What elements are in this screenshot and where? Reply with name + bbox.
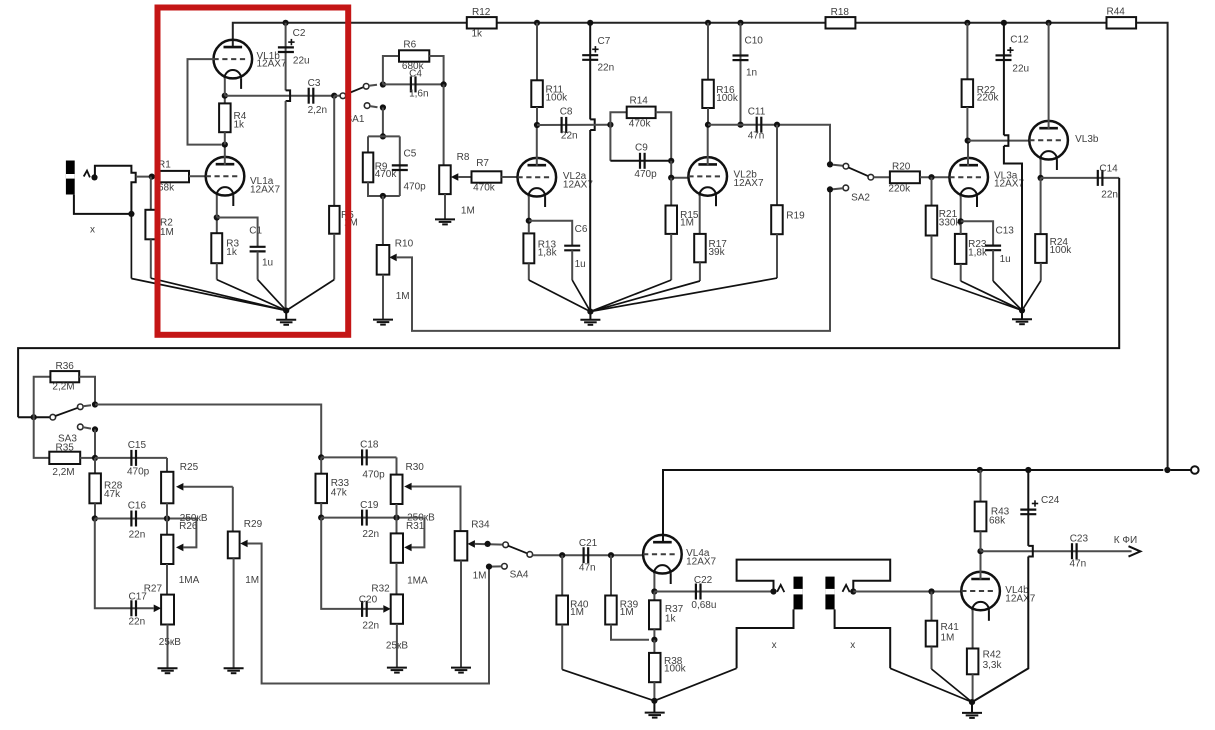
resistor R22 <box>962 23 1000 141</box>
wire R31 to R32 <box>396 563 398 595</box>
svg-text:x: x <box>772 640 777 651</box>
svg-text:C2: C2 <box>293 28 306 39</box>
node C9/R14 right <box>668 158 674 164</box>
resistor R12 <box>467 7 497 40</box>
capacitor C18 <box>360 439 385 480</box>
tube VL1a <box>206 157 281 206</box>
switch SA2 <box>827 161 874 203</box>
svg-text:1n: 1n <box>746 68 757 79</box>
jack X2 output-left <box>737 560 891 669</box>
svg-text:2,2n: 2,2n <box>308 105 327 116</box>
capacitor C24 <box>972 470 1060 702</box>
svg-text:1M: 1M <box>620 607 634 618</box>
node SA1 upper/R6 <box>380 81 386 87</box>
capacitor C6 <box>529 221 588 280</box>
capacitor C9 <box>610 143 671 181</box>
potentiometer R10 <box>377 239 414 319</box>
potentiometer R34 <box>455 520 503 668</box>
svg-text:R12: R12 <box>472 7 491 18</box>
svg-text:0,68u: 0,68u <box>691 600 716 611</box>
node SA4 lower <box>486 564 492 570</box>
svg-text:1M: 1M <box>245 575 259 586</box>
node VL1a cathode <box>214 214 220 220</box>
svg-text:R10: R10 <box>395 239 414 250</box>
wire ground diagonals VL3 <box>932 279 1041 311</box>
resistor R36 <box>34 361 95 417</box>
node R33/C19 <box>318 515 324 521</box>
resistor R6 <box>383 40 444 85</box>
capacitor C17 <box>95 519 154 628</box>
red highlight box <box>158 8 349 335</box>
resistor R2 <box>145 177 174 279</box>
capacitor C8 <box>560 107 578 142</box>
resistor R41 <box>926 592 960 670</box>
wire VL3a anode <box>967 141 969 166</box>
svg-text:470k: 470k <box>629 119 652 130</box>
node R9/C5 bottom <box>380 193 386 199</box>
capacitor C19 <box>360 500 379 540</box>
node VL2b grid/R15 <box>668 175 674 181</box>
node rail/R11 <box>534 20 540 26</box>
svg-text:12AX7: 12AX7 <box>686 557 716 568</box>
svg-text:1k: 1k <box>665 614 677 625</box>
wire anode to VL3b grid <box>968 140 1030 142</box>
wire C19 row <box>321 517 423 519</box>
wire C11 row <box>708 125 830 165</box>
svg-text:R20: R20 <box>892 162 911 173</box>
wire VL3b anode <box>1048 23 1050 129</box>
svg-text:R6: R6 <box>403 40 416 51</box>
svg-text:22u: 22u <box>293 56 310 67</box>
svg-text:1M: 1M <box>680 218 694 229</box>
svg-text:330k: 330k <box>939 218 962 229</box>
wire C4 node down to R8 <box>443 84 445 165</box>
svg-text:47n: 47n <box>1070 559 1087 570</box>
node VL1b cathode <box>222 93 228 99</box>
svg-text:x: x <box>90 225 95 236</box>
resistor R24 <box>1035 178 1072 281</box>
wire R9/C5 to R10 <box>382 196 384 245</box>
node C18 row left <box>318 454 324 460</box>
node rail/R16 <box>705 20 711 26</box>
ground VL1 stage <box>276 308 296 325</box>
node R34 wiper <box>485 541 491 547</box>
potentiometer R25 <box>161 458 233 519</box>
svg-text:C24: C24 <box>1041 495 1060 506</box>
svg-text:12AX7: 12AX7 <box>734 178 764 189</box>
potentiometer R32 <box>371 584 403 668</box>
svg-text:12AX7: 12AX7 <box>994 179 1024 190</box>
svg-text:47n: 47n <box>748 131 765 142</box>
node SA1 lower <box>380 104 386 110</box>
node VL3a anode <box>965 138 971 144</box>
capacitor C14 <box>1041 164 1120 201</box>
svg-text:R44: R44 <box>1107 7 1126 18</box>
capacitor C21 <box>579 538 598 574</box>
node VL4b anode/R43 <box>977 548 983 554</box>
svg-text:25кВ: 25кВ <box>386 641 408 652</box>
svg-text:C13: C13 <box>996 226 1015 237</box>
node C10 bottom <box>737 122 743 128</box>
node rail/R22 <box>964 20 970 26</box>
svg-text:100k: 100k <box>716 93 739 104</box>
svg-text:C1: C1 <box>249 226 262 237</box>
switch SA4 <box>489 542 533 581</box>
svg-text:1,8k: 1,8k <box>968 248 988 259</box>
wire VL4b cathode <box>972 610 974 649</box>
svg-text:12AX7: 12AX7 <box>563 180 593 191</box>
potentiometer R27 <box>144 584 174 668</box>
svg-text:R36: R36 <box>56 361 75 372</box>
tube VL3b <box>1029 121 1099 170</box>
svg-text:1,6n: 1,6n <box>409 89 428 100</box>
svg-text:C8: C8 <box>560 107 573 118</box>
capacitor C1 <box>217 218 273 280</box>
svg-text:x: x <box>850 640 855 651</box>
svg-text:470p: 470p <box>362 470 385 481</box>
ground under R34 <box>451 668 471 673</box>
svg-text:22n: 22n <box>598 63 615 74</box>
svg-text:68k: 68k <box>989 516 1006 527</box>
svg-text:1M: 1M <box>160 227 174 238</box>
node C3/R5/SA1 <box>331 93 337 99</box>
ground VL4b stage <box>962 699 982 718</box>
svg-text:470p: 470p <box>404 182 427 193</box>
resistor R9 <box>363 136 400 196</box>
jack X3 output-right <box>825 577 890 669</box>
wire SA3 lower to R35 <box>94 429 96 458</box>
tube VL3a <box>949 158 1024 207</box>
svg-text:C17: C17 <box>129 592 148 603</box>
wire ground diagonals VL2 <box>529 278 777 312</box>
svg-text:47n: 47n <box>579 563 596 574</box>
resistor R13 <box>523 196 557 280</box>
resistor R3 <box>211 218 239 280</box>
wire VL1b cathode <box>224 78 226 96</box>
resistor R7 <box>458 158 518 194</box>
svg-text:C23: C23 <box>1070 534 1089 545</box>
svg-text:68k: 68k <box>158 183 175 194</box>
svg-text:22n: 22n <box>362 620 379 631</box>
wire VL2b anode <box>707 125 709 165</box>
resistor R35 <box>34 417 95 478</box>
svg-text:2,2M: 2,2M <box>52 467 74 478</box>
svg-text:К ФИ: К ФИ <box>1114 535 1137 546</box>
node R35/C15 <box>92 455 98 461</box>
svg-text:1M: 1M <box>941 633 955 644</box>
node R41/VL4b grid <box>928 588 934 594</box>
svg-text:2,2M: 2,2M <box>52 382 74 393</box>
wire B+ supply rail <box>233 23 1168 470</box>
potentiometer R31 <box>391 513 435 563</box>
resistor R40 <box>556 555 588 669</box>
svg-text:R18: R18 <box>831 7 850 18</box>
svg-text:R29: R29 <box>244 519 263 530</box>
node VL3a cathode <box>958 218 964 224</box>
svg-text:470k: 470k <box>473 183 496 194</box>
capacitor C13 <box>961 221 1015 281</box>
wire feedback line to tone stack <box>18 178 1119 417</box>
node rail/C10 <box>737 20 743 26</box>
svg-text:C3: C3 <box>308 78 321 89</box>
svg-text:R41: R41 <box>941 622 960 633</box>
svg-text:47k: 47k <box>104 489 121 500</box>
svg-text:100k: 100k <box>546 93 569 104</box>
svg-text:100k: 100k <box>1050 245 1073 256</box>
resistor R1 <box>158 160 189 194</box>
node SA3 lower <box>92 426 98 432</box>
svg-text:C12: C12 <box>1010 35 1029 46</box>
wire ground diagonals VL1 <box>131 214 334 311</box>
svg-text:C4: C4 <box>409 69 422 80</box>
svg-text:25кВ: 25кВ <box>159 637 181 648</box>
capacitor C10 <box>733 23 764 125</box>
node VL2a anode/C8 <box>534 122 540 128</box>
node rail/C12 <box>1001 20 1007 26</box>
svg-text:C21: C21 <box>579 538 598 549</box>
svg-text:22n: 22n <box>1101 190 1118 201</box>
node VL4a cathode <box>651 588 657 594</box>
resistor R44 <box>1107 7 1137 29</box>
wire VL1a cathode lead <box>216 195 218 217</box>
node input <box>149 174 155 180</box>
ground VL2 stage <box>580 309 600 325</box>
svg-text:1M: 1M <box>396 291 410 302</box>
capacitor C7 <box>582 23 614 312</box>
tube VL1b <box>214 40 287 89</box>
svg-text:39k: 39k <box>709 247 726 258</box>
wire VL1b grid feedback loop <box>188 59 222 145</box>
node rail/C2 <box>283 20 289 26</box>
tube VL4a <box>643 535 716 584</box>
potentiometer R26 <box>161 513 208 564</box>
resistor R23 <box>955 196 988 281</box>
svg-text:1,8k: 1,8k <box>538 248 558 259</box>
svg-text:C20: C20 <box>359 595 378 606</box>
resistor R33 <box>316 457 350 517</box>
svg-text:C7: C7 <box>598 36 611 47</box>
wire SA4 to C21/VL4a grid <box>533 554 644 556</box>
svg-text:R7: R7 <box>476 158 489 169</box>
switch SA3 <box>18 404 91 445</box>
svg-text:22n: 22n <box>129 529 146 540</box>
svg-text:R32: R32 <box>371 584 390 595</box>
svg-text:SA4: SA4 <box>510 570 529 581</box>
wire SA3 to C18 branch <box>95 405 321 458</box>
wire VL4a anode to output rail <box>663 470 1163 543</box>
node rail/VL3b anode <box>1046 20 1052 26</box>
resistor R43 <box>975 470 1010 551</box>
node C24 top <box>1025 467 1031 473</box>
capacitor C20 <box>321 518 383 632</box>
wire VL4b anode <box>980 551 982 580</box>
resistor R39 <box>605 555 649 640</box>
svg-text:C15: C15 <box>128 440 147 451</box>
svg-text:1МА: 1МА <box>179 575 200 586</box>
wire jack to R1/R2 node <box>136 176 160 178</box>
node R43 top <box>977 467 983 473</box>
svg-text:R26: R26 <box>179 521 198 532</box>
svg-text:100k: 100k <box>664 664 687 675</box>
potentiometer R8 <box>439 152 475 219</box>
svg-text:12AX7: 12AX7 <box>257 59 287 70</box>
svg-text:470p: 470p <box>127 466 150 477</box>
ground under R8 <box>435 219 455 224</box>
switch SA1 <box>334 84 377 126</box>
ground VL4a stage <box>645 698 665 718</box>
node output terminal <box>1164 467 1170 473</box>
wire VL1a anode to R4 <box>224 145 226 165</box>
resistor R17 <box>694 195 727 281</box>
wire VL2a anode <box>536 125 538 166</box>
svg-text:1k: 1k <box>226 247 238 258</box>
output terminal circle <box>1171 466 1199 474</box>
ground under R32 <box>387 668 407 673</box>
resistor R20 <box>874 162 951 195</box>
svg-text:C5: C5 <box>404 149 417 160</box>
node R28/C16 <box>92 515 98 521</box>
ground under R29 <box>224 668 244 673</box>
resistor R21 <box>926 177 962 278</box>
ground VL3 stage <box>1012 307 1032 324</box>
wire jack to VL4b grid <box>853 591 962 593</box>
svg-text:12AX7: 12AX7 <box>1005 594 1035 605</box>
wire to VL2b grid <box>671 161 689 178</box>
svg-text:C19: C19 <box>360 500 379 511</box>
capacitor C4 <box>383 69 444 100</box>
svg-text:1k: 1k <box>234 120 246 131</box>
capacitor C16 <box>128 501 147 541</box>
svg-text:R35: R35 <box>56 443 75 454</box>
node R20/R21/VL3a grid <box>928 174 934 180</box>
node VL3b cathode <box>1038 175 1044 181</box>
svg-text:47k: 47k <box>331 488 348 499</box>
node C19/R30/R31 <box>393 515 399 521</box>
svg-text:R30: R30 <box>406 462 425 473</box>
resistor R5 <box>329 96 358 280</box>
wire VL4a cathode <box>653 573 655 591</box>
svg-text:R25: R25 <box>180 462 199 473</box>
wire ground diagonals VL4b <box>890 668 972 702</box>
svg-text:C6: C6 <box>575 224 588 235</box>
wire ground diagonals VL4a <box>562 668 736 701</box>
svg-text:12AX7: 12AX7 <box>250 185 280 196</box>
svg-text:1k: 1k <box>472 29 484 40</box>
svg-text:C11: C11 <box>748 107 766 118</box>
svg-text:C14: C14 <box>1099 164 1118 175</box>
svg-text:SA2: SA2 <box>851 192 870 203</box>
svg-text:220k: 220k <box>977 93 1000 104</box>
svg-text:1M: 1M <box>570 607 584 618</box>
svg-text:1M: 1M <box>461 206 475 217</box>
svg-text:22u: 22u <box>1012 64 1029 75</box>
node R36/SA3 upper <box>92 401 98 407</box>
svg-text:22n: 22n <box>362 529 379 540</box>
tube VL4b <box>961 572 1035 621</box>
resistor R11 <box>531 23 568 125</box>
resistor R38 <box>649 640 687 701</box>
svg-text:C16: C16 <box>128 501 147 512</box>
node C21 left/R40 <box>559 552 565 558</box>
node R37/R38 <box>651 637 657 643</box>
capacitor C11 <box>748 107 766 142</box>
tube VL2b <box>688 157 764 206</box>
resistor R16 <box>702 23 739 125</box>
wire C15 row <box>95 457 167 459</box>
svg-text:R19: R19 <box>786 211 805 222</box>
resistor R14 <box>610 96 671 161</box>
capacitor C3 <box>308 78 327 116</box>
svg-text:3,3k: 3,3k <box>983 660 1003 671</box>
svg-text:C9: C9 <box>635 143 648 154</box>
node C16/R25/R26 <box>164 515 170 521</box>
node C8/R14 <box>607 122 613 128</box>
ground under R10 <box>373 320 393 325</box>
svg-text:22n: 22n <box>561 131 578 142</box>
capacitor C23 and output arrow <box>981 534 1141 570</box>
resistor R15 <box>666 178 699 280</box>
svg-text:470p: 470p <box>634 169 657 180</box>
capacitor C15 <box>127 440 150 477</box>
tube VL2a <box>518 158 594 207</box>
node C21 right/R39 <box>608 552 614 558</box>
ground under R27 <box>158 668 178 673</box>
potentiometer R29 <box>228 487 489 684</box>
capacitor C22 <box>654 575 773 611</box>
svg-text:VL3b: VL3b <box>1075 134 1099 145</box>
wire C16 row <box>95 518 198 520</box>
node SA3/R36 left <box>31 414 37 420</box>
svg-text:R31: R31 <box>406 521 425 532</box>
node VL2a cathode <box>526 218 532 224</box>
resistor R37 <box>649 592 684 640</box>
svg-text:C18: C18 <box>360 439 379 450</box>
wire C18 row <box>321 456 396 458</box>
resistor R28 <box>89 458 122 519</box>
wire C8 row <box>537 124 610 126</box>
node rail/C7 <box>587 20 593 26</box>
svg-text:1u: 1u <box>575 259 586 270</box>
svg-text:R34: R34 <box>471 520 490 531</box>
wire SA1 lower to R9/C5 <box>382 108 384 137</box>
wire VL3b cathode <box>1040 159 1042 178</box>
svg-text:C22: C22 <box>694 575 713 586</box>
wire R26 to R27 <box>166 564 168 595</box>
svg-text:1M: 1M <box>473 571 487 582</box>
svg-text:C10: C10 <box>745 36 764 47</box>
resistor R4 <box>219 96 247 145</box>
wire R1 to VL1a grid <box>189 175 206 177</box>
capacitor C5 <box>392 136 426 196</box>
svg-text:R42: R42 <box>983 650 1002 661</box>
node R9/C5 top <box>380 133 386 139</box>
node C4/R6/R8 wire <box>441 81 447 87</box>
wire cathode row to C3 <box>225 95 334 97</box>
svg-text:1МА: 1МА <box>407 576 428 587</box>
potentiometer R30 <box>391 457 461 531</box>
svg-text:22n: 22n <box>129 616 146 627</box>
svg-text:R14: R14 <box>630 96 649 107</box>
resistor R18 <box>826 7 856 29</box>
resistor R42 <box>967 649 1003 703</box>
capacitor C12 <box>996 23 1030 311</box>
svg-text:1u: 1u <box>262 258 273 269</box>
node VL2b anode row <box>705 122 711 128</box>
resistor R19 <box>771 125 805 278</box>
node VL1a anode <box>222 142 228 148</box>
svg-text:1u: 1u <box>1000 254 1011 265</box>
svg-text:R8: R8 <box>457 152 470 163</box>
